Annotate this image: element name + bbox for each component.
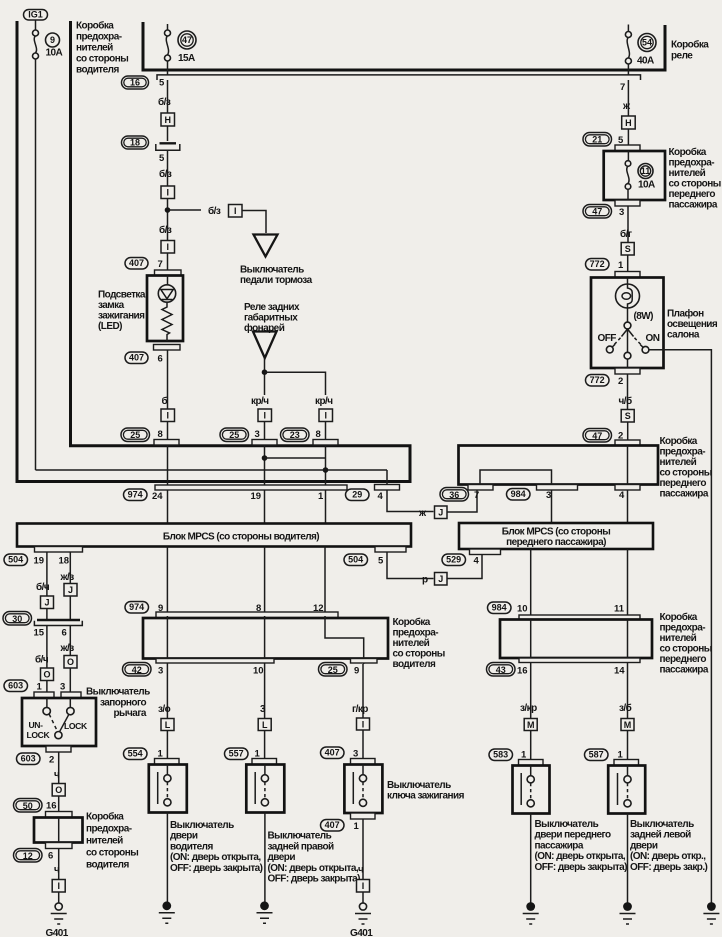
inline connector 30 symbol [34,620,82,626]
svg-text:984: 984 [511,489,526,499]
wire pin19 down [46,552,48,596]
svg-text:M: M [624,720,632,730]
wire lock to O box [58,752,60,783]
connector J box (pin18) [64,584,77,597]
wire triangle to junction [264,358,266,395]
svg-text:OFF: дверь закрыта): OFF: дверь закрыта) [535,862,628,873]
svg-text:J: J [68,585,73,595]
connector H box (right) [622,116,636,129]
ground junction dot (rear right door) [260,901,269,910]
svg-text:50: 50 [23,801,33,811]
svg-text:40A: 40A [637,56,654,67]
wire H to fuse box tab [627,129,629,145]
svg-text:б/ч: б/ч [35,654,49,666]
connector M box (rear left door) [621,719,634,731]
connector 587 stadium [585,749,609,761]
svg-text:рычага: рычага [114,708,147,719]
wire I box to junction [167,199,169,241]
svg-text:ч: ч [54,865,60,876]
rear right door switch internals [255,765,268,806]
svg-text:557: 557 [229,749,244,759]
fuse F47 element [165,30,171,61]
svg-text:603: 603 [21,754,36,764]
svg-text:салона: салона [667,330,700,341]
dome switch pole contact [624,322,631,329]
svg-text:р: р [422,575,428,586]
svg-text:G401: G401 [350,928,373,937]
svg-text:21: 21 [592,134,602,144]
svg-text:ж/з: ж/з [60,643,75,654]
connector 30 stadium [3,612,32,626]
ground G401 (left) [51,903,67,924]
svg-text:предохра-: предохра- [76,32,122,43]
rear right door switch box [246,765,284,813]
svg-text:554: 554 [128,749,143,759]
svg-text:10A: 10A [638,180,655,191]
svg-text:OFF: дверь закрыта): OFF: дверь закрыта) [268,874,361,885]
wire fuse54 to strip [627,64,629,75]
wire б/г segment [627,206,629,242]
ground symbol (front passenger) [523,914,539,925]
pin tab dome top [615,272,640,278]
fuse F9 element [33,30,39,59]
svg-text:запорного: запорного [100,698,146,709]
wire M to 587 tab [627,731,629,760]
svg-text:двери переднего: двери переднего [535,830,612,841]
wire col A I to tab [167,422,169,440]
svg-text:18: 18 [130,138,140,148]
connector 504 stadium (right) [344,554,368,566]
connector 407 stadium (bottom of LED) [125,352,148,364]
svg-text:19: 19 [251,491,262,502]
top connector strip [157,75,641,80]
svg-text:LOCK: LOCK [27,730,51,740]
pin tab lock left [34,692,54,698]
MPCS driver box [17,524,411,547]
ground symbol (dome rail) [703,914,719,925]
svg-text:29: 29 [352,490,362,500]
svg-text:I: I [263,411,266,421]
svg-text:Выключатель: Выключатель [268,831,332,842]
svg-text:11: 11 [641,166,651,176]
svg-text:б/з: б/з [159,168,172,180]
connector 29 stadium [346,489,370,501]
wire M to 583 tab [530,731,532,760]
lamp module box Подсветка замка зажигания [147,276,183,342]
svg-text:12: 12 [23,851,33,861]
svg-text:504: 504 [8,555,23,565]
fuse F11 element [625,161,631,190]
connector L box (driver door) [161,719,174,731]
wire pin9 through driver fuse box [166,616,168,718]
svg-text:Коробка: Коробка [393,616,431,628]
svg-text:Коробка: Коробка [671,39,709,51]
svg-text:реле: реле [671,51,693,62]
wire I to ground (key) [362,892,364,903]
pin tab fusebox11 bottom [615,200,640,206]
pin tab band pin 3 [537,485,578,491]
connector M box (front passenger door) [524,719,537,731]
connector I box (column C) [319,409,333,422]
driver door switch box [149,765,187,813]
svg-text:47: 47 [592,206,602,216]
wire S to 772 tab [627,255,629,272]
wire key switch to ground [362,819,364,879]
svg-text:I: I [166,188,169,198]
svg-text:6: 6 [158,354,163,365]
connector 554 stadium [124,748,148,760]
pin tab 29/4 [375,485,400,491]
connector 407 stadium (top of LED) [125,258,148,270]
svg-text:пассажира: пассажира [660,665,709,676]
svg-text:25: 25 [328,665,338,675]
node IG1 [24,10,48,21]
svg-text:3: 3 [546,490,551,501]
svg-text:9: 9 [354,666,359,677]
pin tab col A [154,440,179,446]
wire MPCS driver pin8 down [264,547,266,612]
pin tab lower passenger box top [519,615,640,620]
svg-text:O: O [67,657,74,667]
svg-text:O: O [55,785,62,795]
connector O box (lock) [52,784,65,797]
connector I box (column A above LED) [161,241,175,254]
svg-text:8: 8 [316,429,321,440]
svg-text:задней левой: задней левой [630,830,691,841]
wire р run left [387,552,434,579]
wire col C into band [325,445,327,485]
wire rear right door switch to ground [264,813,266,904]
svg-text:педали тормоза: педали тормоза [240,275,313,286]
svg-text:S: S [625,411,631,421]
wire ч/б segment [627,374,629,409]
svg-text:529: 529 [446,555,461,565]
svg-text:нителей: нителей [86,836,123,847]
svg-text:пассажира: пассажира [669,200,718,211]
wire O to fuse box [58,796,60,812]
pin tab fusebox11 top [615,145,640,151]
svg-text:нителей: нителей [660,633,697,644]
wire col C strip to MPCS [325,490,327,524]
svg-text:переднего: переднего [660,654,707,665]
svg-text:407: 407 [129,353,144,363]
wire to ground left column [58,849,60,880]
svg-text:Выключатель: Выключатель [535,819,599,830]
svg-text:предохра-: предохра- [86,824,132,835]
svg-text:б: б [162,395,168,407]
svg-text:18: 18 [59,556,70,567]
connector 43 stadium [487,663,516,677]
svg-text:504: 504 [348,555,363,565]
wire pin8 through driver fuse box [264,616,266,718]
ground junction dot (front passenger) [526,902,535,911]
svg-text:I: I [362,719,365,729]
svg-text:Коробка: Коробка [86,811,124,823]
wire fuse 11 out [627,189,629,200]
front passenger door switch box [513,766,550,814]
ground junction dot (dome rail) [707,902,716,911]
wire branch to brake switch [168,209,202,211]
ground junction dot (rear left) [623,902,632,911]
pin tab lock right [61,692,81,698]
svg-text:J: J [438,508,443,518]
wire rear left door switch to ground [627,814,629,904]
connector 12 stadium [14,849,43,863]
dome switch OFF contact [606,344,615,353]
svg-text:UN-: UN- [29,720,44,730]
connector 25 stadium (bottom) [319,663,348,677]
svg-text:IG1: IG1 [28,10,43,20]
wire L to 557 tab [264,731,266,759]
dome switch chevron and dashed links [622,329,634,352]
svg-text:(ON: дверь открыта,: (ON: дверь открыта, [170,852,261,863]
svg-text:M: M [527,720,535,730]
svg-text:974: 974 [129,602,144,612]
svg-text:974: 974 [128,490,143,500]
connector I box (brake branch) [229,205,243,218]
svg-text:Выключатель: Выключатель [86,687,150,698]
connector 407 stadium (key bottom) [321,820,345,832]
rear left door switch box [608,766,645,814]
wire б column A [167,350,169,409]
svg-text:10: 10 [517,604,528,615]
svg-text:з/о: з/о [158,704,171,715]
svg-text:I: I [57,881,60,891]
pin tab small fuse box top [46,812,73,818]
svg-text:24: 24 [152,491,163,502]
wire MPCS passenger out pin10 [530,549,532,615]
svg-text:1: 1 [318,491,324,502]
ignition key switch box [344,765,382,814]
svg-text:16: 16 [130,78,140,88]
svg-text:Выключатель: Выключатель [240,265,304,276]
svg-text:5: 5 [378,556,384,567]
svg-text:3: 3 [619,207,624,218]
svg-text:г/кр: г/кр [352,704,368,715]
connector O box (pin6 branch) [64,656,77,669]
svg-text:407: 407 [325,748,340,758]
wire col B I to tab [264,422,266,440]
svg-text:11: 11 [614,604,625,615]
svg-text:4: 4 [474,556,480,567]
svg-text:кр/ч: кр/ч [251,396,269,407]
svg-text:587: 587 [589,750,604,760]
driver door switch internals [158,765,171,806]
svg-text:Коробка: Коробка [669,146,707,158]
tail lamp relay triangle [253,332,277,359]
wire col A strip to MPCS [167,490,169,524]
svg-text:зажигания: зажигания [98,311,145,322]
svg-text:43: 43 [496,665,506,675]
svg-text:16: 16 [517,666,528,677]
wire H to inline connector 18 [167,126,169,141]
svg-text:984: 984 [492,603,507,613]
svg-text:со стороны: со стороны [393,649,445,660]
pin tab passenger band top [615,440,640,446]
connector 47 stadium (right top) [583,205,612,219]
dome lamp box Плафон освещения салона [591,278,664,369]
connector 25 stadium (col A) [121,428,150,442]
connector 25 stadium (col B) [220,428,249,442]
svg-text:(ON: дверь открыта,: (ON: дверь открыта, [268,863,359,874]
connector 772 stadium (top) [586,259,610,271]
connector 557 stadium [225,748,249,760]
svg-text:47: 47 [592,431,602,441]
pin tab MPCS driver left bottom [35,547,83,553]
svg-text:14: 14 [614,666,625,677]
svg-text:ж: ж [622,101,631,112]
svg-text:водителя: водителя [76,65,119,76]
pin tab lower passenger box bottom [519,658,640,663]
connector 529 stadium [442,554,466,566]
lock switch contacts [43,707,74,738]
svg-text:Коробка: Коробка [76,20,114,32]
connector 18 stadium [122,136,149,149]
wire center contact down [627,359,629,368]
pin tab band pin 4 [615,485,640,491]
lock lever switch box [22,698,96,746]
connector 407 stadium (key top) [321,747,345,759]
wire into fuse 11 [627,151,629,161]
wire front passenger door switch to ground [530,814,532,904]
top box border (driver fuse box top / relay box) [143,22,665,70]
svg-text:I: I [324,411,327,421]
svg-text:со стороны: со стороны [86,848,138,859]
svg-text:1: 1 [354,821,360,832]
svg-text:407: 407 [129,258,144,268]
svg-text:(ON: дверь откр.,: (ON: дверь откр., [630,851,706,862]
connector H box [161,113,175,126]
fuse F47 wire top [167,24,169,30]
svg-text:двери: двери [630,840,658,851]
svg-text:Выключатель: Выключатель [630,819,694,830]
wire bulb to switch pole [627,308,629,322]
wire pin3 to MPCS passenger [551,490,553,523]
svg-text:8: 8 [158,429,163,440]
ground symbol (rear right door) [257,913,273,924]
connector L box (rear right door) [258,719,271,731]
connector J box (pin19) [41,596,54,609]
ground G401 (key) [355,903,371,924]
connector O box (pin15 branch) [41,668,54,681]
wire I to 407 tab [362,730,364,759]
svg-text:1: 1 [37,682,43,693]
connector I box (column A lower) [161,409,175,422]
svg-text:603: 603 [8,681,23,691]
svg-text:предохра-: предохра- [393,628,439,639]
fuse F11 designator double circle 11 [638,164,653,179]
wire pin11 through box [627,620,629,719]
connector 984 stadium (lower) [488,602,512,614]
svg-text:16: 16 [46,801,57,812]
svg-text:4: 4 [619,490,625,501]
fuse F47 designator double circle 47 [178,31,196,49]
svg-text:габаритных: габаритных [244,312,298,324]
wire б/з segment 1 [167,80,169,113]
wire IG1 feed down-left column [35,59,37,470]
svg-text:5: 5 [159,153,165,164]
svg-text:S: S [625,244,631,254]
svg-text:ч/б: ч/б [619,395,632,407]
svg-text:23: 23 [290,430,300,440]
svg-text:(ON: дверь открыта,: (ON: дверь открыта, [535,851,626,862]
svg-text:19: 19 [34,556,45,567]
pin tab key switch bottom [351,813,376,819]
svg-text:пассажира: пассажира [535,840,584,851]
wire pin4 down behind MPCS [627,490,629,523]
svg-text:задней правой: задней правой [268,841,335,852]
pin tab LED top [155,270,182,276]
pin tab driver door switch [155,759,180,765]
connector 50 stadium [14,799,43,813]
junction dot brake branch [165,207,171,213]
connector 47 stadium (above band) [583,429,612,443]
svg-text:б/з: б/з [158,96,171,108]
wire I box to brake switch triangle [242,211,266,234]
connector 974 strip [155,485,347,490]
svg-text:7: 7 [620,82,625,93]
resistor zigzag in lamp module [162,302,172,341]
svg-text:нителей: нителей [393,638,430,649]
svg-text:двери: двери [268,852,296,863]
wire IG1 feed horizontal [36,469,388,471]
pin tab small fuse box bottom [46,843,73,849]
wire bus кр/ч inside band [265,457,326,459]
ground symbol (rear left) [620,914,636,925]
connector 23 stadium (col C) [281,428,310,442]
svg-text:I: I [166,242,169,252]
connector S box (lower) [621,410,634,423]
svg-text:10A: 10A [46,48,63,59]
pin tab lock bottom [46,746,71,752]
dome bulb symbol [616,284,640,308]
svg-text:б/з: б/з [159,224,172,236]
ground symbol (driver door) [159,913,175,924]
svg-text:7: 7 [158,259,163,270]
svg-text:47: 47 [182,35,192,45]
wire р run right to MPCS passenger pin 4 [447,555,482,579]
svg-text:583: 583 [493,750,508,760]
svg-text:предохра-: предохра- [660,623,706,634]
svg-text:2: 2 [49,755,54,766]
svg-text:H: H [625,118,632,128]
svg-text:нителей: нителей [76,43,113,54]
junction dot col B bus [262,455,268,461]
svg-text:J: J [438,574,443,584]
svg-text:3: 3 [255,429,260,440]
pin tab col C [313,440,338,446]
svg-text:Реле задних: Реле задних [244,302,300,313]
svg-text:36: 36 [449,490,459,500]
svg-text:5: 5 [159,78,165,89]
wire col A through band [167,445,169,485]
connector J box (ж) [435,506,448,519]
wire IG1 down [35,20,37,30]
svg-text:водителя: водителя [86,860,129,871]
wire I to ground [58,892,60,903]
svg-text:ключа зажигания: ключа зажигания [387,791,465,802]
lower passenger fuse box [500,620,652,659]
svg-text:со стороны: со стороны [669,179,721,190]
pin tab MPCS passenger pin 4 [470,549,501,555]
svg-text:Блок MPCS (со стороны: Блок MPCS (со стороны [502,527,610,538]
svg-text:L: L [165,720,171,730]
svg-text:предохра-: предохра- [660,447,706,458]
svg-text:H: H [164,115,171,125]
svg-text:OFF: дверь закрыта): OFF: дверь закрыта) [170,863,263,874]
svg-text:3: 3 [158,666,163,677]
dome switch ON contact [640,345,649,354]
